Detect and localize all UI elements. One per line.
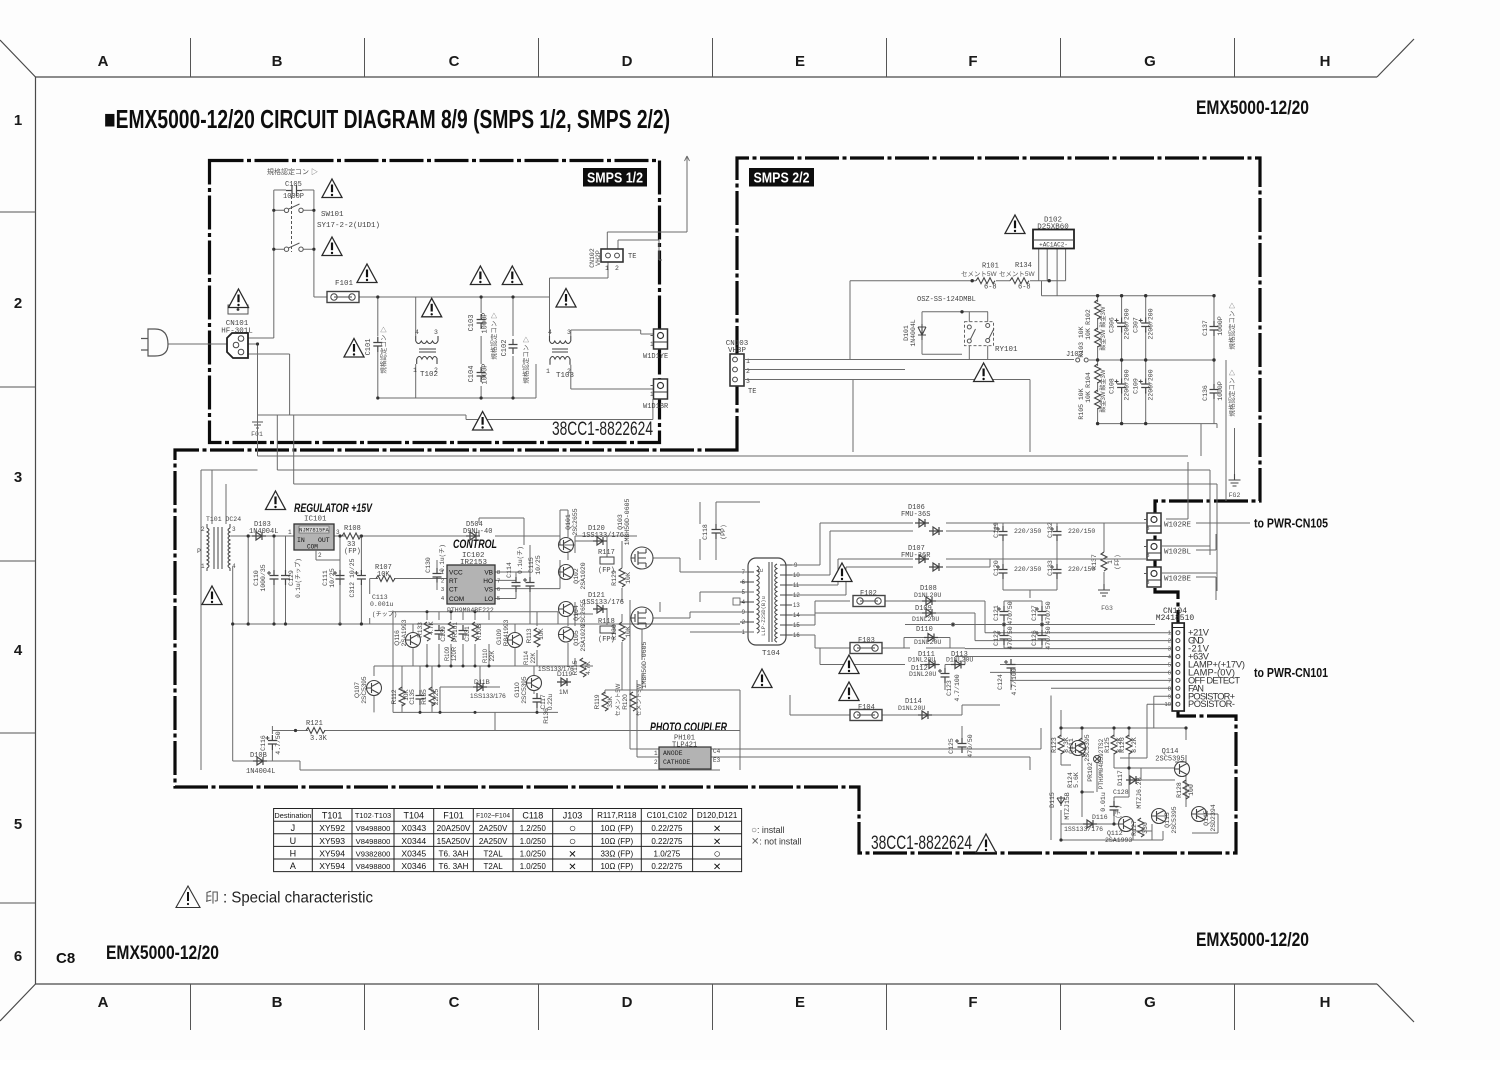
- install legend: [751, 825, 801, 848]
- main buses: [1042, 281, 1215, 296]
- svg-text:酸金3W: 酸金3W: [1099, 369, 1107, 390]
- svg-text:F: F: [968, 994, 977, 1011]
- svg-text:Q102: Q102: [573, 568, 580, 584]
- svg-text:H: H: [290, 848, 297, 858]
- svg-text:3: 3: [14, 469, 22, 486]
- svg-text:X0343: X0343: [401, 823, 426, 833]
- caps C306 C307: [1115, 318, 1127, 333]
- svg-text:(FP): (FP): [344, 548, 361, 556]
- svg-text:10/25: 10/25: [535, 555, 542, 575]
- svg-text:R120: R120: [622, 694, 629, 710]
- svg-text:R119: R119: [594, 694, 601, 709]
- svg-text:D11B: D11B: [474, 679, 490, 686]
- svg-text:C8: C8: [56, 950, 75, 967]
- svg-text:2SC2655: 2SC2655: [572, 508, 579, 535]
- svg-text:8: 8: [497, 570, 500, 576]
- svg-text:2SC5395: 2SC5395: [1155, 756, 1184, 764]
- svg-text:470/50: 470/50: [967, 734, 974, 758]
- svg-text:22K: 22K: [531, 653, 537, 664]
- svg-text:1.2/250: 1.2/250: [520, 824, 547, 833]
- svg-text:R126: R126: [1119, 737, 1126, 753]
- svg-text:HO: HO: [483, 578, 493, 585]
- svg-text:4.7K: 4.7K: [428, 621, 435, 635]
- svg-text:2SC2655: 2SC2655: [580, 599, 587, 626]
- svg-text:R113: R113: [526, 628, 533, 643]
- label chip SMPS 2/2: [749, 168, 814, 187]
- C137 C136: [1210, 321, 1219, 336]
- svg-text:C124: C124: [997, 674, 1004, 690]
- svg-text:規格認定コン ▷: 規格認定コン ▷: [378, 326, 387, 374]
- svg-text:G110: G110: [514, 682, 521, 698]
- svg-text:R134: R134: [1015, 262, 1032, 270]
- switch SW101: [284, 196, 303, 252]
- svg-text:D: D: [622, 53, 633, 70]
- svg-text:220/350: 220/350: [1014, 528, 1041, 535]
- small filter box above CN101: [228, 305, 248, 314]
- svg-text:C4: C4: [713, 748, 721, 755]
- svg-text:38CC1-8822624: 38CC1-8822624: [552, 419, 653, 440]
- C116: [265, 735, 277, 750]
- svg-text:2SA1993: 2SA1993: [1105, 837, 1132, 844]
- svg-text:C103: C103: [468, 315, 476, 332]
- svg-text:220/350: 220/350: [1014, 566, 1041, 573]
- svg-text:EMX5000-12/20: EMX5000-12/20: [1196, 930, 1309, 951]
- svg-text:1.0/250: 1.0/250: [520, 837, 547, 846]
- svg-text:1: 1: [288, 529, 292, 536]
- svg-text:10/25: 10/25: [329, 568, 336, 588]
- svg-text:C102: C102: [501, 340, 509, 357]
- svg-text:T101: T101: [322, 811, 343, 821]
- C123 C124: [938, 668, 950, 683]
- svg-text:R133: R133: [417, 622, 424, 638]
- svg-text:Q112: Q112: [1107, 830, 1123, 837]
- svg-text:1000P: 1000P: [482, 312, 490, 333]
- svg-text:C104: C104: [468, 366, 476, 383]
- svg-text:C133: C133: [1047, 560, 1054, 576]
- svg-text:X0344: X0344: [401, 836, 426, 846]
- W101BR connector: [651, 379, 668, 399]
- svg-text:C: C: [449, 994, 460, 1011]
- svg-text:C121: C121: [993, 605, 1000, 621]
- svg-text:C113: C113: [372, 594, 388, 601]
- svg-text:R101: R101: [982, 263, 999, 271]
- svg-text:MTZJ6.2B: MTZJ6.2B: [1136, 777, 1143, 808]
- svg-text:✕: ✕: [568, 862, 576, 873]
- variation table: [274, 809, 742, 874]
- svg-text:R117,R118: R117,R118: [597, 811, 637, 820]
- bridge output verticals: [1039, 249, 1066, 296]
- rectifier wires: [630, 502, 1155, 770]
- caps C119 C132: [996, 526, 1008, 541]
- svg-text:F101: F101: [443, 811, 464, 821]
- svg-text:OUT: OUT: [318, 537, 330, 544]
- junction dots: [256, 209, 515, 400]
- caps C122 C126: [997, 630, 1009, 645]
- svg-text:CT: CT: [449, 587, 458, 594]
- svg-text:M2418510: M2418510: [1156, 614, 1195, 623]
- svg-text:C105: C105: [285, 181, 302, 189]
- photo coupler wires: [711, 728, 1041, 770]
- svg-text:XY592: XY592: [319, 823, 345, 833]
- box SMPS 2/2 outline: [175, 158, 1260, 853]
- svg-text:120R: 120R: [452, 646, 458, 661]
- svg-text:セメント5W: セメント5W: [636, 683, 643, 716]
- svg-text:1: 1: [654, 750, 658, 757]
- svg-text:3: 3: [1168, 647, 1171, 653]
- svg-text:1000P: 1000P: [482, 363, 490, 384]
- R129: [619, 568, 625, 587]
- svg-text:T2AL: T2AL: [484, 862, 504, 871]
- svg-text:C131: C131: [464, 626, 471, 642]
- svg-text:W1D1YE: W1D1YE: [643, 353, 668, 361]
- svg-text:Q107: Q107: [354, 682, 361, 698]
- svg-text:C307: C307: [1133, 317, 1140, 333]
- svg-text:4: 4: [415, 329, 419, 336]
- svg-text:R10B: R10B: [476, 624, 483, 640]
- feed from bus area down: [1201, 360, 1226, 501]
- svg-text:C312 10/25: C312 10/25: [349, 558, 356, 597]
- special characteristic note: [176, 886, 373, 908]
- svg-text:C101,C102: C101,C102: [647, 811, 688, 820]
- svg-text:0.001u: 0.001u: [370, 601, 394, 608]
- W102RE connector: [1144, 513, 1161, 533]
- connector CN101: [221, 320, 253, 358]
- photo coupler: [650, 722, 728, 769]
- svg-text:C128: C128: [1113, 789, 1129, 796]
- svg-text:1: 1: [546, 368, 550, 375]
- R130: [619, 622, 625, 641]
- svg-text:F102~F104: F102~F104: [476, 813, 510, 820]
- svg-text:13: 13: [793, 603, 800, 609]
- svg-text:15: 15: [793, 623, 800, 629]
- F103 row: [792, 635, 965, 649]
- svg-text:○: install: ○: install: [751, 825, 784, 836]
- svg-text:セメント5W: セメント5W: [615, 683, 622, 716]
- svg-text:to PWR-CN105: to PWR-CN105: [1254, 517, 1328, 531]
- svg-text:2200/200: 2200/200: [1148, 369, 1155, 400]
- svg-text:C137: C137: [1202, 320, 1209, 336]
- svg-text:1MBH50D-0605: 1MBH50D-0605: [624, 498, 631, 545]
- svg-text:4: 4: [232, 563, 236, 570]
- svg-text:12: 12: [793, 593, 800, 599]
- svg-text:C136: C136: [1202, 385, 1209, 401]
- svg-text:Q111: Q111: [1068, 738, 1075, 754]
- svg-text:R121: R121: [306, 720, 323, 728]
- column letters: [14, 53, 1331, 1011]
- svg-text:XY594: XY594: [319, 861, 345, 871]
- R118: [600, 626, 614, 633]
- svg-text:D1NL20U: D1NL20U: [909, 671, 936, 678]
- svg-text:220/150: 220/150: [1068, 528, 1095, 535]
- svg-text:1: 1: [201, 563, 205, 570]
- svg-text:U: U: [290, 836, 297, 846]
- warning triangles SMPS1: [322, 179, 342, 198]
- svg-text:SY17-2-2(U1D1): SY17-2-2(U1D1): [317, 222, 380, 230]
- svg-text:R117: R117: [598, 549, 615, 557]
- svg-text:C129: C129: [288, 570, 295, 586]
- svg-text:C101: C101: [365, 339, 373, 356]
- svg-text:T6. 3AH: T6. 3AH: [438, 849, 468, 858]
- svg-text:V9382800: V9382800: [356, 849, 391, 858]
- svg-text:2: 2: [654, 759, 658, 766]
- svg-text:Q116: Q116: [394, 630, 401, 646]
- svg-text:✕: ✕: [713, 824, 721, 835]
- svg-text:E: E: [758, 568, 765, 572]
- svg-text:ANODE: ANODE: [663, 750, 683, 757]
- svg-text:470/50: 470/50: [1045, 601, 1052, 625]
- IC101: [288, 524, 340, 624]
- svg-text:2: 2: [318, 552, 322, 559]
- svg-text:10Ω (FP): 10Ω (FP): [600, 837, 633, 846]
- svg-text:FG2: FG2: [1229, 492, 1241, 499]
- connector CN103: [726, 340, 757, 396]
- wire network: [258, 249, 1235, 591]
- svg-text:POSISTOR-: POSISTOR-: [1188, 699, 1235, 709]
- T103 secondary to W101YE: [571, 330, 653, 336]
- ground FG3: [1098, 584, 1110, 596]
- svg-text:Q115: Q115: [1203, 810, 1210, 826]
- svg-text:R108: R108: [344, 525, 361, 533]
- svg-text:D1NL20U: D1NL20U: [946, 657, 973, 664]
- svg-text:8.2K: 8.2K: [1131, 737, 1138, 753]
- svg-text:10Ω (FP): 10Ω (FP): [600, 824, 633, 833]
- C114 C115: [512, 577, 521, 592]
- svg-text:0.22u: 0.22u: [547, 693, 554, 710]
- svg-text:0.1u(チ): 0.1u(チ): [439, 544, 446, 572]
- svg-text:T102: T102: [420, 371, 438, 379]
- svg-text:10: 10: [793, 573, 800, 579]
- svg-text:R104: R104: [1085, 372, 1092, 388]
- svg-text:C132: C132: [1047, 522, 1054, 538]
- svg-text:NJM7815FA: NJM7815FA: [299, 527, 329, 534]
- svg-text:1N4004L: 1N4004L: [249, 528, 278, 536]
- D102 bridge: [1005, 215, 1025, 234]
- svg-text:セメント5W: セメント5W: [961, 270, 997, 278]
- ac input wire: [168, 343, 228, 345]
- svg-text:W102RE: W102RE: [1164, 522, 1192, 530]
- C102: [509, 339, 518, 354]
- svg-text:規格認定コン ▷: 規格認定コン ▷: [1227, 369, 1236, 417]
- svg-text:10: 10: [1165, 702, 1171, 708]
- svg-text:RT: RT: [449, 578, 458, 585]
- svg-text:3: 3: [441, 587, 444, 593]
- svg-text:3: 3: [1146, 552, 1150, 559]
- svg-text:Q101: Q101: [565, 514, 572, 530]
- svg-text:10Ω (FP): 10Ω (FP): [600, 862, 633, 871]
- svg-text:4.7/100: 4.7/100: [1011, 668, 1018, 695]
- ground stub: [257, 415, 259, 422]
- svg-text:✕: ✕: [713, 862, 721, 873]
- AC plug P101: [141, 329, 168, 356]
- svg-text:Destination: Destination: [274, 811, 311, 820]
- svg-text:R109: R109: [445, 646, 451, 661]
- column ticks top: [0, 38, 1235, 1030]
- C130: [433, 568, 442, 583]
- svg-text:V8498800: V8498800: [356, 837, 391, 846]
- svg-text:PTH9M04BE222: PTH9M04BE222: [447, 607, 494, 614]
- svg-text:C130: C130: [425, 557, 432, 573]
- svg-text:XY593: XY593: [319, 836, 345, 846]
- svg-text:0.1u(チ): 0.1u(チ): [517, 546, 524, 574]
- svg-text:D1NL20U: D1NL20U: [908, 657, 935, 664]
- CN102 wires: [607, 156, 687, 249]
- svg-text:C127: C127: [1031, 605, 1038, 621]
- to PWR-CN105: [1196, 522, 1250, 524]
- svg-text:1: 1: [1168, 631, 1171, 637]
- svg-text:VCC: VCC: [449, 570, 463, 577]
- svg-text:7: 7: [497, 579, 500, 585]
- svg-text:V8498800: V8498800: [356, 862, 391, 871]
- svg-text:C116: C116: [260, 735, 267, 751]
- svg-text:14: 14: [793, 613, 800, 619]
- top rail: [358, 296, 550, 298]
- svg-text:G: G: [1144, 53, 1156, 70]
- caps C120 C133: [996, 564, 1008, 579]
- svg-text:5.6K: 5.6K: [1073, 772, 1080, 788]
- svg-text:2SD2394: 2SD2394: [1210, 804, 1217, 831]
- svg-text:1N4004L: 1N4004L: [246, 768, 275, 776]
- svg-text:IC101: IC101: [304, 516, 327, 524]
- svg-text:4: 4: [548, 329, 552, 336]
- wire network: [168, 156, 690, 422]
- svg-text:5: 5: [1168, 663, 1171, 669]
- svg-text:C122: C122: [993, 630, 1000, 646]
- svg-text:2: 2: [14, 295, 22, 312]
- svg-text:3: 3: [232, 526, 236, 533]
- svg-text:セメント5W: セメント5W: [999, 270, 1035, 278]
- svg-text:1: 1: [650, 341, 654, 348]
- svg-text:R127: R127: [1131, 820, 1138, 836]
- svg-text:3.3K: 3.3K: [310, 735, 328, 743]
- Q115: [1192, 807, 1207, 822]
- svg-text:10K: 10K: [1085, 328, 1092, 340]
- svg-text:C126: C126: [1031, 630, 1038, 646]
- svg-text:3: 3: [1146, 579, 1150, 586]
- svg-text:Q113: Q113: [1164, 812, 1171, 828]
- svg-text:Q104: Q104: [573, 605, 580, 621]
- svg-text:COM: COM: [449, 596, 464, 603]
- svg-text:470/50: 470/50: [1045, 626, 1052, 650]
- svg-text:C108: C108: [1109, 378, 1116, 394]
- svg-text:W102BE: W102BE: [1164, 576, 1192, 584]
- svg-text:酸金3W: 酸金3W: [1099, 391, 1107, 412]
- svg-text:1N4004L: 1N4004L: [910, 319, 917, 346]
- C125: [955, 738, 967, 753]
- svg-text:A: A: [98, 53, 109, 70]
- svg-text:0.1u(チップ): 0.1u(チップ): [295, 558, 302, 598]
- svg-text:C109: C109: [1133, 378, 1140, 394]
- svg-text:(チ): (チ): [1115, 805, 1122, 818]
- svg-text:R125: R125: [1104, 737, 1111, 753]
- C101: [373, 337, 382, 352]
- svg-text:(FP): (FP): [1114, 554, 1121, 570]
- svg-text:330: 330: [1142, 822, 1149, 834]
- svg-text:0.22/275: 0.22/275: [651, 824, 683, 833]
- svg-text:1M: 1M: [559, 689, 568, 696]
- svg-text:✕: ✕: [568, 849, 576, 860]
- wires: [201, 470, 748, 770]
- svg-text:C139: C139: [440, 626, 447, 642]
- svg-text:G109: G109: [496, 629, 503, 645]
- svg-text:1000/35: 1000/35: [260, 564, 267, 591]
- svg-text:D116: D116: [1092, 814, 1108, 821]
- svg-text:J103: J103: [563, 811, 583, 821]
- svg-text:16: 16: [793, 633, 800, 639]
- svg-text:XY594: XY594: [319, 848, 345, 858]
- svg-text:R128: R128: [1176, 782, 1183, 798]
- svg-text:20A250V: 20A250V: [437, 824, 471, 833]
- ground FG2: [1229, 474, 1241, 486]
- svg-text:C119: C119: [993, 522, 1000, 538]
- svg-text:to PWR-CN101: to PWR-CN101: [1254, 666, 1328, 680]
- svg-text:R115: R115: [572, 660, 579, 675]
- svg-text:4.7/50: 4.7/50: [275, 731, 282, 755]
- svg-text:R129: R129: [611, 570, 618, 586]
- svg-text:4: 4: [14, 642, 23, 659]
- svg-text:4: 4: [441, 596, 444, 602]
- svg-text:FG3: FG3: [1101, 605, 1113, 612]
- W102BL connector: [1144, 540, 1161, 560]
- svg-text:6: 6: [497, 587, 500, 593]
- caps C103 C104: [477, 314, 486, 329]
- svg-text:470/50: 470/50: [1007, 626, 1014, 650]
- svg-text:38CC1-8822624: 38CC1-8822624: [871, 833, 972, 854]
- svg-text:■EMX5000-12/20 CIRCUIT DIAGRAM: ■EMX5000-12/20 CIRCUIT DIAGRAM 8/9 (SMPS…: [104, 104, 670, 134]
- svg-text:1.0/250: 1.0/250: [520, 849, 547, 858]
- svg-text:3: 3: [336, 529, 340, 536]
- svg-text:CATHODE: CATHODE: [663, 759, 690, 766]
- warning triangles: [832, 563, 852, 582]
- svg-text:E3: E3: [713, 757, 721, 764]
- svg-text:15A250V: 15A250V: [437, 837, 471, 846]
- svg-text:H: H: [1320, 53, 1331, 70]
- svg-text:W1D1BR: W1D1BR: [643, 403, 669, 411]
- svg-text:C110: C110: [253, 570, 260, 586]
- svg-text:2: 2: [441, 579, 444, 585]
- svg-text:R114: R114: [524, 650, 530, 665]
- svg-text:IN: IN: [297, 537, 305, 544]
- svg-text:10K: 10K: [625, 572, 632, 584]
- lower row of cluster: [367, 681, 382, 696]
- svg-text:11: 11: [793, 583, 800, 589]
- svg-text:MTZJ15B: MTZJ15B: [1064, 792, 1071, 819]
- svg-text:2: 2: [615, 265, 619, 272]
- svg-text:0.22/275: 0.22/275: [651, 837, 683, 846]
- cement resistor row: [850, 280, 1066, 282]
- svg-text:9: 9: [1168, 694, 1171, 700]
- svg-text:C114: C114: [506, 562, 513, 578]
- svg-text:Q105: Q105: [573, 630, 580, 646]
- svg-text:+AC1AC2-: +AC1AC2-: [1039, 242, 1068, 249]
- svg-text:8: 8: [1168, 686, 1171, 692]
- F102 row: [792, 601, 985, 633]
- W102BE connector: [1144, 567, 1161, 587]
- caps risers lower row: [1097, 360, 1099, 424]
- svg-text:○: ○: [569, 834, 576, 848]
- svg-text:2SC5395: 2SC5395: [521, 676, 528, 703]
- CN104 feed wires: [955, 633, 1172, 758]
- PR102 pot: [1094, 756, 1101, 763]
- svg-text:酸金3W: 酸金3W: [1099, 329, 1107, 350]
- svg-text:規格認定コン ▷: 規格認定コン ▷: [521, 336, 530, 384]
- svg-text:4.7/100: 4.7/100: [954, 674, 961, 701]
- CN103 to J103 line: [744, 360, 1074, 370]
- svg-text:2SA1020: 2SA1020: [580, 624, 587, 651]
- svg-text:1: 1: [650, 391, 654, 398]
- svg-text:0.01u: 0.01u: [1100, 792, 1107, 812]
- C137/C136 column: [1214, 296, 1217, 428]
- label chip SMPS 1/2: [583, 168, 647, 187]
